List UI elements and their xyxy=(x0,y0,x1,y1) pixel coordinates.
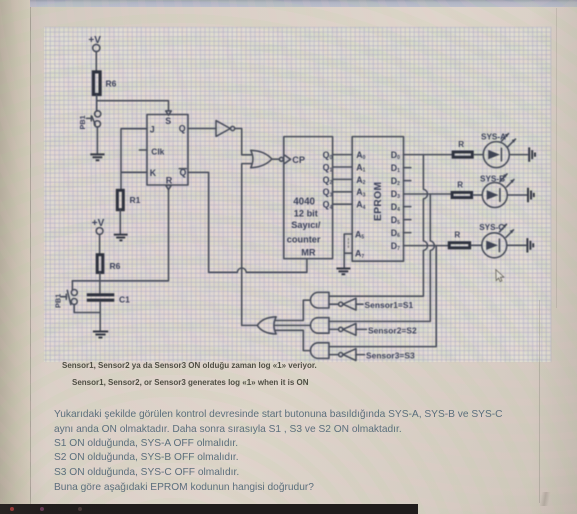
svg-text:Sensor2=S2: Sensor2=S2 xyxy=(368,325,417,335)
resistor R (SYS-B row) xyxy=(452,180,472,197)
pin D5 xyxy=(391,215,411,226)
JK flip-flop U1 xyxy=(139,111,188,190)
pin D3 xyxy=(391,189,400,200)
svg-text:PB1: PB1 xyxy=(54,294,63,308)
pin D0 xyxy=(391,150,400,161)
svg-text:S: S xyxy=(165,116,171,126)
pin D6 xyxy=(391,228,411,239)
LED SYS-C xyxy=(479,223,513,258)
wire LED to ground (SYS-C) xyxy=(507,244,526,246)
and-gate G3 xyxy=(310,343,329,359)
svg-text:SYS-C: SYS-C xyxy=(479,223,504,232)
svg-text:Sensor3=S3: Sensor3=S3 xyxy=(366,351,415,361)
ground (SYS-B) xyxy=(528,188,534,202)
wire R6b to node R xyxy=(99,273,101,293)
wire R1 to ground xyxy=(119,210,121,234)
node Q3 wire 4040 to EPROM xyxy=(323,187,353,198)
svg-text:C1: C1 xyxy=(119,295,130,305)
ground (C1) xyxy=(93,332,108,338)
resistor R6 xyxy=(93,72,116,95)
svg-text:12 bit: 12 bit xyxy=(294,208,318,218)
svg-text:PB1: PB1 xyxy=(78,115,87,129)
svg-text:R: R xyxy=(458,140,464,149)
inverter (Sensor3) xyxy=(329,349,415,361)
svg-text:counter: counter xyxy=(287,234,321,244)
or-gate OR2 xyxy=(257,317,276,334)
wire OR2 output riser to OR1 xyxy=(242,164,252,326)
wire AND3 out to OR2 xyxy=(275,330,311,350)
pin D2 xyxy=(391,176,411,187)
svg-text:EPROM: EPROM xyxy=(373,182,384,221)
wire tap D3 down to AND2 xyxy=(329,194,434,321)
pin D7 xyxy=(391,241,400,252)
bottom text xyxy=(62,361,317,370)
wire node to S input xyxy=(97,101,169,111)
ground (EPROM A) xyxy=(336,269,350,275)
svg-text:CP: CP xyxy=(292,155,305,165)
or-gate OR1 xyxy=(251,150,272,167)
svg-text:Sayıcı/: Sayıcı/ xyxy=(291,220,321,230)
svg-text:R6: R6 xyxy=(106,79,117,89)
wire resistor to LED (SYS-A) xyxy=(474,154,484,156)
svg-text:R: R xyxy=(166,175,173,185)
wire tap D0 down to AND1 xyxy=(329,155,427,297)
and-gate G1 xyxy=(310,292,329,308)
svg-text:R6: R6 xyxy=(110,261,121,271)
wire tap D7 down to AND3 xyxy=(329,246,436,347)
node Q2 wire 4040 to EPROM xyxy=(323,175,353,186)
svg-text:R: R xyxy=(454,231,460,240)
svg-text:4040: 4040 xyxy=(293,197,315,208)
wire +V to R6 xyxy=(95,52,97,71)
wire resistor to LED (SYS-B) xyxy=(473,194,482,196)
wire D to resistor (SYS-B) xyxy=(404,193,451,195)
wire node to JK R input xyxy=(72,190,168,281)
wire PB1b bottom xyxy=(74,304,100,312)
counter 4040 U3 xyxy=(279,137,332,259)
wire R6 to PB1 / node S xyxy=(96,95,98,111)
wire +V to R6b xyxy=(99,234,101,253)
svg-text:MR: MR xyxy=(301,248,316,258)
ground (R1) xyxy=(114,235,128,241)
wire resistor to LED (SYS-C) xyxy=(471,244,482,246)
wire Q to inverter xyxy=(188,128,216,130)
LED SYS-A xyxy=(481,133,516,168)
svg-text:J: J xyxy=(150,124,155,134)
push button PB1 xyxy=(78,111,101,130)
node Q1 wire 4040 to EPROM xyxy=(323,162,353,173)
EPROM U4 xyxy=(352,137,403,262)
wire J/K bus xyxy=(121,129,147,189)
wire C1 to ground xyxy=(99,302,101,331)
wire inverter to OR1 xyxy=(235,129,252,155)
svg-text:R: R xyxy=(457,180,463,189)
pin D4 xyxy=(391,202,411,213)
resistor R (SYS-A row) xyxy=(453,140,472,157)
inverter (Sensor2) xyxy=(329,324,417,336)
wire PB1 to ground xyxy=(96,127,98,154)
capacitor C1 xyxy=(87,295,130,305)
wire Qbar to MR xyxy=(188,172,237,272)
wire LED to ground (SYS-A) xyxy=(509,154,527,156)
svg-text:Q: Q xyxy=(179,124,186,134)
mouse cursor xyxy=(496,270,504,282)
wire OR1 to CP xyxy=(272,158,279,160)
svg-text:SYS-B: SYS-B xyxy=(480,174,505,183)
svg-text:SYS-A: SYS-A xyxy=(481,133,506,142)
wire OR2 output xyxy=(242,324,258,326)
and-gate G2 xyxy=(310,318,329,334)
power +V (reset) xyxy=(92,218,105,234)
wire D to resistor (SYS-C) xyxy=(404,245,448,247)
svg-text:Clk: Clk xyxy=(151,146,164,156)
svg-text:R1: R1 xyxy=(130,195,141,205)
wire AND2 out to OR2 xyxy=(275,324,311,326)
resistor R (SYS-C row) xyxy=(449,231,470,248)
wire LED to ground (SYS-B) xyxy=(507,194,526,196)
node Q0 wire 4040 to EPROM xyxy=(323,150,353,161)
LED SYS-B xyxy=(480,174,514,208)
power +V (top) xyxy=(88,35,101,52)
wire hop over OR2 riser xyxy=(237,268,246,272)
pin D1 xyxy=(391,163,411,174)
wire D to resistor (SYS-A) xyxy=(404,154,452,156)
push button PB1 (reset) xyxy=(54,281,78,308)
svg-text:K: K xyxy=(150,168,157,178)
ground (SYS-A) xyxy=(529,147,535,161)
resistor R6 (reset) xyxy=(97,255,120,273)
wire A5/A7 to ground xyxy=(344,234,352,268)
svg-text:Sensor1=S1: Sensor1=S1 xyxy=(365,300,414,310)
wire AND1 out to OR2 xyxy=(275,300,311,320)
resistor R1 xyxy=(117,190,140,209)
node Q4 wire 4040 to EPROM xyxy=(323,200,353,211)
ground (SYS-C) xyxy=(527,238,533,252)
ground (PB1) xyxy=(90,154,104,160)
inverter U2 xyxy=(216,121,235,137)
inverter (Sensor1) xyxy=(329,298,413,310)
wire to MR pin xyxy=(246,259,307,273)
